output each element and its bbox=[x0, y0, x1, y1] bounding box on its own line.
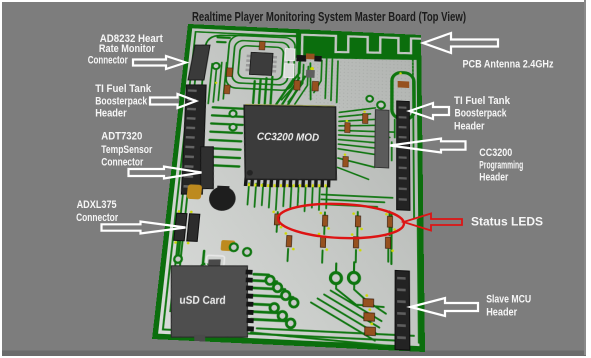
svg-text:Boosterpack: Boosterpack bbox=[95, 95, 148, 107]
svg-text:Rate Monitor: Rate Monitor bbox=[99, 43, 156, 55]
svg-text:TI Fuel Tank: TI Fuel Tank bbox=[454, 95, 511, 107]
svg-text:Slave MCU: Slave MCU bbox=[486, 294, 531, 306]
svg-text:Status LEDS: Status LEDS bbox=[471, 217, 543, 229]
svg-text:Programming: Programming bbox=[479, 160, 523, 172]
svg-text:Header: Header bbox=[479, 172, 509, 184]
svg-text:TempSensor: TempSensor bbox=[101, 144, 153, 156]
svg-text:Connector: Connector bbox=[88, 54, 129, 66]
svg-text:Connector: Connector bbox=[101, 157, 144, 169]
svg-text:ADXL375: ADXL375 bbox=[77, 199, 117, 211]
svg-text:CC3200: CC3200 bbox=[479, 147, 512, 159]
svg-text:Connector: Connector bbox=[76, 212, 119, 224]
svg-text:PCB Antenna 2.4GHz: PCB Antenna 2.4GHz bbox=[463, 59, 555, 71]
svg-text:Realtime Player Monitoring Sys: Realtime Player Monitoring System Master… bbox=[192, 10, 466, 24]
svg-text:Boosterpack: Boosterpack bbox=[455, 108, 508, 120]
svg-text:Header: Header bbox=[454, 120, 485, 132]
svg-text:Header: Header bbox=[95, 108, 127, 120]
svg-text:Header: Header bbox=[486, 307, 518, 319]
svg-text:TI Fuel Tank: TI Fuel Tank bbox=[95, 83, 152, 95]
svg-text:ADT7320: ADT7320 bbox=[101, 130, 142, 142]
